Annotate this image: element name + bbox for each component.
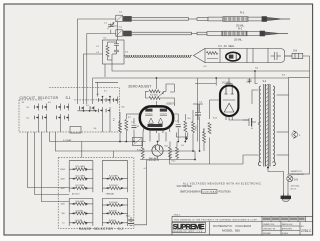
trimmer capacitor C-1 (107, 22, 114, 29)
svg-text:R-10: R-10 (137, 150, 141, 152)
ground arrow junction (176, 133, 187, 141)
resistor R-7 (125, 120, 128, 131)
logo SUPREME box (172, 222, 206, 232)
svg-text:R-12: R-12 (172, 161, 176, 163)
svg-text:6-5: 6-5 (97, 94, 100, 96)
wire v2 left lead (210, 100, 221, 119)
svg-text:R-15 4 MEG: R-15 4 MEG (76, 166, 86, 168)
wire probe interconnect (117, 22, 119, 41)
wire bus C stub (95, 81, 118, 83)
tube V-1 heater (148, 124, 163, 127)
probe R-1 connector box (116, 15, 123, 21)
svg-text:G-8: G-8 (293, 50, 298, 53)
wire transformer right taps (277, 94, 289, 96)
svg-text:GREENWOOD, MISS., U.S.A.: GREENWOOD, MISS., U.S.A. (173, 230, 204, 233)
svg-text:REGULATOR: REGULATOR (148, 159, 160, 162)
power loop rectangle (289, 78, 310, 175)
svg-text:V-4: V-4 (181, 145, 184, 147)
probe tip connector (285, 55, 293, 57)
svg-text:G-3: G-3 (125, 52, 128, 54)
svg-text:C-8: C-8 (246, 82, 249, 84)
wire range feed up A (81, 142, 83, 158)
probe R-1 handle (197, 18, 208, 21)
svg-text:C-3: C-3 (96, 52, 99, 54)
wire range step 1 (28, 132, 70, 188)
wire bus y164 (170, 154, 244, 164)
svg-text:ACV-DCV: ACV-DCV (72, 193, 80, 196)
svg-text:S-5: S-5 (86, 105, 89, 107)
battery BA-1 (128, 217, 134, 225)
svg-text:S-8: S-8 (282, 75, 285, 77)
svg-text:SWITCH SHOWN IN: SWITCH SHOWN IN (180, 191, 201, 194)
switch S-1 wafer D (98, 96, 117, 132)
wire transformer top feed (255, 71, 258, 84)
probe R-2 handle (197, 32, 207, 35)
svg-text:R-6: R-6 (114, 118, 116, 121)
svg-text:SCALE: SCALE (282, 232, 289, 235)
capacitor C-3 (114, 48, 119, 54)
wire bus y151 (55, 132, 195, 151)
svg-text:.05: .05 (137, 126, 140, 128)
resistor R-25 (102, 187, 127, 190)
svg-text:S-6: S-6 (94, 128, 97, 130)
tube V-1 pins (143, 127, 144, 132)
title block stamp cells (262, 216, 306, 221)
svg-text:R-4 3000: R-4 3000 (150, 95, 158, 97)
range contact arrows (72, 168, 75, 170)
svg-text:G-6: G-6 (255, 68, 258, 70)
wire pot bottom link (146, 91, 149, 98)
svg-text:NO.: NO. (301, 226, 305, 228)
resistor R-27 (69, 212, 93, 215)
svg-text:R-8: R-8 (188, 118, 191, 120)
resistor R-31 (102, 221, 127, 224)
svg-text:C-5: C-5 (175, 121, 178, 123)
title block frame (172, 215, 313, 217)
svg-text:REVISED: REVISED (263, 233, 272, 235)
range value labels (72, 166, 119, 222)
misc small labels (22, 12, 285, 171)
wire ballast top (157, 142, 159, 146)
wire divider resistor bottom (209, 138, 211, 165)
wire bus B (93, 78, 289, 104)
svg-text:ZERO ADJUST: ZERO ADJUST (128, 84, 151, 88)
svg-text:PRI.: PRI. (259, 121, 261, 125)
probe V-3 body (194, 48, 285, 62)
approval table (262, 222, 300, 235)
svg-text:C-6: C-6 (199, 102, 202, 104)
svg-text:S-9: S-9 (294, 177, 299, 181)
wire right cap leads (173, 114, 178, 123)
tube V-2 anodes (225, 87, 227, 94)
svg-text:R-16 1 MEG: R-16 1 MEG (76, 176, 86, 178)
wire probe2 lead (87, 34, 116, 105)
wire heater bus (140, 151, 195, 160)
svg-text:C-4: C-4 (131, 122, 134, 124)
svg-text:R-33 200M: R-33 200M (109, 185, 118, 187)
title text SCHEMATIC DIAGRAM (209, 222, 211, 235)
pot wiper arrow (158, 92, 164, 97)
wire plate supply (195, 83, 216, 85)
wire cathode drop (142, 142, 144, 148)
wire tube right rail (196, 78, 198, 142)
capacitor C-7 4MFD (243, 118, 256, 126)
transformer T-1 core (264, 84, 270, 167)
wire left resistor leads (119, 112, 121, 122)
svg-text:APPROVED: APPROVED (282, 228, 293, 231)
switch S-1 wafer A (34, 104, 46, 133)
probe R-1 plug (123, 16, 131, 21)
svg-text:R-32 1MEG: R-32 1MEG (109, 176, 119, 178)
svg-text:R-19 80M: R-19 80M (76, 210, 84, 212)
capacitor C-8 ticks (248, 78, 252, 84)
wire range step 2 (35, 132, 70, 195)
svg-text:6-1: 6-1 (27, 117, 30, 119)
svg-text:MODEL 565: MODEL 565 (222, 229, 240, 233)
potentiometer R-5 (149, 97, 160, 100)
divider box (133, 138, 143, 146)
circuit selector box S-1 (19, 88, 120, 132)
svg-text:R-34 100M: R-34 100M (109, 202, 118, 204)
wire right resistor leads (184, 114, 186, 121)
svg-text:ALL VOLTAGES MEASURED WITH AN: ALL VOLTAGES MEASURED WITH AN ELECTRONIC (183, 182, 261, 185)
ballast tube V-4 (152, 145, 163, 156)
svg-text:G-2: G-2 (119, 27, 122, 29)
capacitor C-5 (176, 124, 181, 126)
svg-text:SCHEMATIC DIAGRAM: SCHEMATIC DIAGRAM (213, 224, 251, 228)
resistor R-20 in probe (207, 52, 218, 55)
resistor R-13 (208, 123, 211, 134)
wire v2 to transformer (229, 116, 249, 120)
svg-text:2756-C: 2756-C (301, 229, 312, 233)
svg-text:BA-1: BA-1 (126, 215, 130, 218)
resistor R-6 (119, 122, 122, 133)
svg-text:CCW MAX: CCW MAX (202, 191, 217, 194)
fuse F-1 (292, 131, 298, 139)
svg-text:DRAWN R.M.: DRAWN R.M. (263, 223, 275, 226)
coiled shield cable (124, 56, 192, 58)
svg-text:R-20 4M: R-20 4M (76, 220, 83, 222)
svg-text:2756-C: 2756-C (174, 215, 181, 217)
svg-text:G-7: G-7 (144, 168, 147, 170)
tube V-2 filament (223, 99, 236, 101)
transformer T-1 primary winding (258, 86, 260, 166)
svg-text:25 MIL.: 25 MIL. (234, 38, 243, 42)
svg-text:115 V. AC.: 115 V. AC. (291, 184, 301, 187)
wire coax shield (84, 54, 103, 104)
capacitor C-4 (132, 125, 137, 127)
svg-text:R-11: R-11 (165, 146, 169, 148)
probe R-2 plug (123, 31, 131, 36)
svg-text:DATE 6-8-40: DATE 6-8-40 (282, 223, 292, 226)
wire bias resistor leads (169, 142, 171, 148)
wire pot right to tube (160, 98, 174, 106)
capacitor in probe (271, 52, 282, 60)
svg-text:V-3 AC SEAL: V-3 AC SEAL (218, 45, 235, 48)
tube V-1 plates (145, 109, 152, 112)
probe R-2 connector box (116, 30, 123, 36)
svg-text:RANGE SELECTOR S-2: RANGE SELECTOR S-2 (79, 227, 124, 231)
svg-text:(6SN7): (6SN7) (167, 102, 175, 106)
resistor R-12 (176, 147, 179, 158)
resistor R-8 (184, 121, 187, 132)
wire bus y141 (50, 132, 146, 142)
resistor R-22 (69, 177, 93, 180)
svg-text:R-35 20M: R-35 20M (109, 210, 117, 212)
svg-text:SHUNTS TO: SHUNTS TO (291, 171, 303, 173)
svg-text:R-7: R-7 (128, 117, 131, 119)
svg-text:R-17 800M: R-17 800M (76, 185, 85, 187)
svg-text:60 CY.: 60 CY. (291, 188, 297, 190)
wire range step 3 (41, 132, 69, 201)
svg-text:S-4: S-4 (263, 80, 267, 83)
svg-text:POSITION.: POSITION. (219, 191, 232, 194)
tube V-1 envelope (140, 106, 173, 129)
resistor R-11 (169, 147, 172, 158)
capacitor C-6 (193, 104, 203, 120)
capacitor C-2 (114, 40, 119, 48)
svg-text:R-18 400M: R-18 400M (76, 201, 85, 203)
svg-text:R-13: R-13 (204, 129, 206, 133)
svg-text:6-2: 6-2 (27, 107, 30, 109)
svg-text:R-2: R-2 (104, 38, 107, 40)
svg-text:OHMS-MA: OHMS-MA (106, 193, 115, 196)
tube V-1 cathodes (149, 118, 154, 123)
svg-text:C-1: C-1 (104, 23, 107, 25)
svg-text:1 MEG: 1 MEG (196, 125, 198, 131)
svg-text:R-1: R-1 (240, 11, 245, 15)
resistor R-23 (69, 187, 93, 190)
svg-text:R-2: R-2 (238, 27, 243, 31)
svg-text:CHECKED WL: CHECKED WL (263, 229, 275, 231)
coupling box (103, 40, 125, 64)
wire battery return (134, 160, 147, 225)
svg-text:ZERO ADJUST: ZERO ADJUST (291, 173, 306, 176)
wire box to bus (112, 64, 310, 78)
range rails top (69, 161, 127, 226)
potentiometer R-4 (149, 90, 160, 93)
tube V-2 top leads (225, 84, 227, 86)
wire transformer left taps (252, 90, 259, 104)
junction dots center (119, 70, 256, 160)
resistor R-10 (141, 147, 144, 158)
range selector box S-2 (58, 158, 134, 229)
resistor R-21 (69, 168, 93, 171)
switch box S-1 rear (70, 127, 81, 134)
tube V-2 bottom pins (225, 116, 227, 120)
transformer bottom junction (267, 167, 269, 169)
svg-text:1500V: 1500V (60, 169, 66, 171)
probe R-2 cable (131, 32, 191, 35)
wire probe1 lead (78, 19, 117, 104)
tube V-1 grids (145, 114, 167, 116)
rectifier tube V-2 (220, 86, 238, 117)
svg-text:S-7: S-7 (104, 91, 107, 93)
svg-text:G-5: G-5 (204, 66, 207, 68)
svg-text:V-2 (80): V-2 (80) (222, 82, 231, 85)
switch S-1 wafer C (78, 106, 98, 112)
wire range feed up B (112, 151, 114, 158)
svg-text:C-2: C-2 (96, 46, 99, 48)
range row labels (60, 169, 66, 225)
wire probe3 cable exit (303, 56, 310, 71)
power plug P-1 (281, 194, 291, 202)
svg-text:S-1 REAR: S-1 REAR (63, 139, 72, 142)
svg-text:S-1: S-1 (66, 96, 71, 100)
svg-text:R-6: R-6 (122, 107, 125, 109)
wire zero adjust feed (155, 78, 157, 89)
wire filter cap lead (199, 104, 201, 112)
resistor R-28 (69, 221, 93, 224)
svg-text:R-13: R-13 (213, 118, 217, 120)
svg-text:4 MFD. 450V: 4 MFD. 450V (252, 117, 254, 129)
svg-text:R-36 1M: R-36 1M (109, 220, 116, 222)
wire switch drop (287, 174, 289, 175)
wire pot to grid (163, 84, 175, 92)
wire tube top cap (156, 101, 158, 107)
probe R-1 cable (131, 18, 188, 21)
svg-text:6-3: 6-3 (22, 102, 25, 104)
svg-text:1.5: 1.5 (62, 223, 65, 225)
resistor R-30 (102, 212, 127, 215)
transformer T-1 secondary winding (273, 86, 275, 166)
switch S-1 wafer B (56, 104, 68, 133)
wire trimmer tap (111, 24, 118, 27)
resistor R-14 (203, 128, 206, 151)
resistor R-24 (102, 177, 127, 180)
svg-text:G-1: G-1 (119, 12, 122, 14)
tube V-3 (226, 52, 240, 61)
wire v2 top feed (215, 78, 217, 86)
svg-text:VOLTMETER.: VOLTMETER. (177, 185, 193, 188)
svg-text:6-4: 6-4 (48, 102, 51, 104)
resistor R-9 (192, 122, 195, 133)
wire transformer bottom lead (268, 167, 284, 194)
resistor R-3 (106, 42, 117, 64)
svg-text:CIRCUIT SELECTOR: CIRCUIT SELECTOR (20, 96, 59, 100)
switch S-9 (287, 176, 293, 182)
resistor R-26 (69, 202, 93, 205)
resistor R-29 (102, 204, 127, 207)
